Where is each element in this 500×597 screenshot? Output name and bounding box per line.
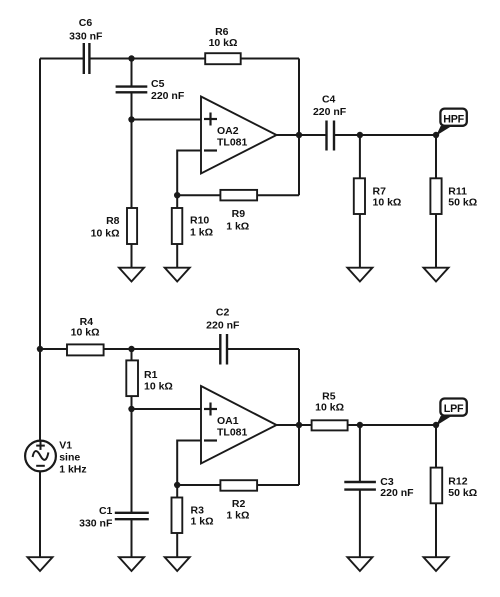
svg-text:10 kΩ: 10 kΩ (71, 326, 100, 338)
svg-text:10 kΩ: 10 kΩ (373, 197, 402, 209)
svg-text:220 nF: 220 nF (380, 487, 414, 499)
svg-text:10 kΩ: 10 kΩ (144, 381, 173, 393)
svg-text:R2: R2 (232, 498, 246, 510)
svg-text:HPF: HPF (443, 113, 464, 125)
svg-text:OA2: OA2 (217, 125, 239, 137)
svg-text:1 kHz: 1 kHz (59, 463, 86, 475)
svg-text:220 nF: 220 nF (206, 320, 240, 332)
svg-text:sine: sine (59, 451, 80, 463)
svg-text:TL081: TL081 (217, 427, 248, 439)
svg-text:50 kΩ: 50 kΩ (448, 197, 477, 209)
svg-text:10 kΩ: 10 kΩ (91, 228, 120, 240)
svg-text:R8: R8 (106, 215, 120, 227)
svg-text:10 kΩ: 10 kΩ (209, 37, 238, 49)
svg-text:OA1: OA1 (217, 415, 239, 427)
svg-text:10 kΩ: 10 kΩ (315, 402, 344, 414)
svg-text:1 kΩ: 1 kΩ (226, 509, 249, 521)
svg-text:330 nF: 330 nF (69, 30, 103, 42)
svg-text:C5: C5 (151, 78, 165, 90)
svg-text:V1: V1 (59, 439, 72, 451)
svg-text:330 nF: 330 nF (79, 518, 113, 530)
svg-text:C4: C4 (322, 94, 336, 106)
svg-text:220 nF: 220 nF (151, 90, 185, 102)
svg-text:R10: R10 (190, 215, 209, 227)
svg-text:50 kΩ: 50 kΩ (448, 487, 477, 499)
svg-text:1 kΩ: 1 kΩ (191, 516, 214, 528)
svg-text:TL081: TL081 (217, 137, 248, 149)
svg-text:1 kΩ: 1 kΩ (190, 227, 213, 239)
svg-text:C6: C6 (79, 17, 93, 29)
svg-text:1 kΩ: 1 kΩ (226, 221, 249, 233)
svg-text:LPF: LPF (444, 403, 464, 415)
svg-text:R1: R1 (144, 369, 158, 381)
svg-text:220 nF: 220 nF (313, 106, 347, 118)
svg-text:C1: C1 (99, 505, 113, 517)
svg-text:R12: R12 (448, 476, 467, 488)
svg-text:C2: C2 (216, 306, 230, 318)
svg-text:R9: R9 (232, 208, 246, 220)
